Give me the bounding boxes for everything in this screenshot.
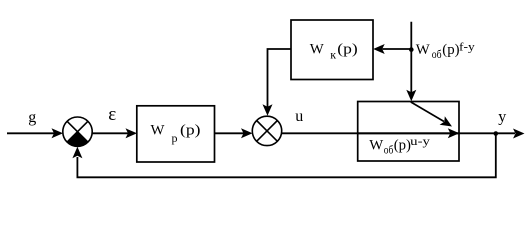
block Wk (corrector W_k(p))	[291, 20, 373, 80]
summing junction S1	[63, 117, 92, 146]
svg-text:об: об	[384, 144, 394, 156]
wire g input	[7, 132, 54, 134]
svg-text:W: W	[151, 123, 165, 139]
svg-text:y: y	[498, 109, 506, 126]
svg-text:(p): (p)	[180, 123, 201, 139]
wire re-drawn over block interior	[358, 132, 459, 134]
svg-text:W: W	[310, 42, 324, 58]
wire Wp to summer S2	[215, 132, 244, 134]
arrowhead into plant top	[406, 90, 416, 102]
wire S1 to Wp	[92, 132, 128, 134]
summing junction S2	[252, 116, 281, 145]
node dot on f line	[409, 47, 414, 52]
wire feedback: down, left, up into S1	[77, 134, 495, 178]
arrowhead feedback into S1 bottom	[72, 147, 82, 159]
block Wp (regulator W_p(p))	[137, 106, 215, 162]
svg-text:u-y: u-y	[410, 136, 430, 148]
arrowhead into Wk right edge	[373, 44, 385, 54]
block Wob plant	[358, 102, 459, 162]
arrowhead into summer S1	[52, 128, 64, 138]
wire S2 to output (passes through plant block)	[282, 132, 515, 134]
second arrowhead on output line inside block	[448, 128, 460, 138]
svg-text:f-y: f-y	[459, 42, 475, 54]
svg-text:u: u	[295, 108, 303, 125]
arrowhead output y	[513, 129, 525, 139]
svg-text:W: W	[416, 42, 430, 58]
wire f disturbance vertical	[410, 22, 412, 93]
arrowhead into Wp	[126, 128, 138, 138]
svg-text:об: об	[432, 49, 442, 61]
arrowhead into S2	[241, 128, 253, 138]
arrowhead into S2 top	[263, 104, 273, 116]
svg-text:(p): (p)	[442, 42, 459, 58]
wire Wk output: left then down into S2	[268, 49, 292, 107]
svg-text:(p): (p)	[394, 137, 411, 153]
svg-text:g: g	[28, 109, 36, 126]
svg-text:(p): (p)	[337, 42, 357, 58]
summer S1 filled bottom sector	[67, 132, 88, 147]
svg-text:к: к	[330, 48, 336, 62]
node branch dot on output	[494, 131, 499, 136]
svg-text:р: р	[172, 131, 178, 145]
svg-text:W: W	[369, 137, 383, 153]
svg-text:ε: ε	[108, 104, 116, 125]
diagonal arrow inside plant block	[411, 102, 444, 122]
wire f to Wk	[383, 48, 412, 50]
